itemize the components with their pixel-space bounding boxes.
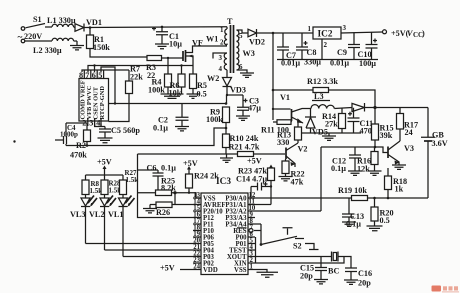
capacitor C2 0.1u <box>176 104 189 127</box>
svg-text:7: 7 <box>85 71 89 80</box>
capacitor C4 1000p <box>55 123 87 146</box>
wire node to battery <box>375 107 428 109</box>
capacitor C16 20p <box>345 268 357 280</box>
+5V Vcc terminal <box>383 30 387 34</box>
svg-text:100µ: 100µ <box>359 59 376 68</box>
svg-text:C16: C16 <box>358 269 372 278</box>
capacitor C15 20p <box>315 257 327 280</box>
ground <box>279 177 293 181</box>
svg-text:R19 10k: R19 10k <box>338 186 367 195</box>
svg-text:22k: 22k <box>130 73 143 82</box>
wire feedback left <box>66 128 226 146</box>
wire IC1 pin7 to R4 <box>88 66 193 73</box>
resistor R3 22 (horizontal, gate) <box>147 56 162 61</box>
wire W3 pin6 to ground <box>237 70 255 77</box>
wire pin8 pin7 to S2 <box>255 224 261 245</box>
resistor R2 470k <box>86 124 88 131</box>
svg-text:1: 1 <box>250 264 254 271</box>
wire <box>45 26 52 28</box>
wire VSS pin1 ground <box>255 270 267 273</box>
wire base divider rail <box>321 146 375 148</box>
svg-text:6: 6 <box>92 71 96 80</box>
resistor R28 1.5k <box>101 180 108 195</box>
wire W3 pin5 to VD2 <box>237 30 249 33</box>
svg-text:0.1µ: 0.1µ <box>161 164 176 173</box>
resistor R20 0.5 <box>373 197 376 200</box>
diode VD4 <box>352 103 365 111</box>
capacitor C9 0.01u <box>348 32 360 59</box>
svg-text:5: 5 <box>98 71 102 80</box>
capacitor C10 100u <box>366 32 378 60</box>
svg-text:4: 4 <box>219 65 223 73</box>
svg-text:VD3: VD3 <box>230 86 246 95</box>
svg-text:R12 3.3k: R12 3.3k <box>307 77 338 86</box>
ground <box>392 165 406 169</box>
svg-text:330µ: 330µ <box>304 58 321 67</box>
ground <box>257 272 279 277</box>
svg-text:V1: V1 <box>280 93 290 102</box>
svg-text:IC2: IC2 <box>318 30 333 40</box>
diode VD2 <box>248 29 257 37</box>
svg-text:12k: 12k <box>357 165 370 174</box>
resistor R1 150k <box>89 28 91 36</box>
svg-text:3: 3 <box>219 54 223 62</box>
svg-text:C14 4.7µ: C14 4.7µ <box>236 175 267 184</box>
node <box>114 102 116 104</box>
capacitor C1 10u <box>161 26 164 29</box>
resistor R7 22k <box>126 81 133 94</box>
AC terminal lower <box>21 39 25 43</box>
svg-text:VF: VF <box>192 39 203 48</box>
svg-text:20p: 20p <box>358 279 371 288</box>
MOSFET W1 VF <box>182 51 184 61</box>
svg-text:L3: L3 <box>314 92 324 101</box>
node <box>272 89 275 92</box>
winding W3 secondary <box>237 30 240 70</box>
op-amp IC1 PWM controller box <box>79 79 109 122</box>
RES pin circle <box>249 229 253 233</box>
resistor R23 47k <box>268 168 275 181</box>
node <box>272 32 275 35</box>
node dot and speck <box>13 140 15 142</box>
resistor R25 8.2k <box>138 192 156 194</box>
ground <box>368 171 382 175</box>
svg-text:8.2k: 8.2k <box>161 184 176 193</box>
svg-text:24: 24 <box>193 264 200 271</box>
svg-text:100k: 100k <box>148 86 165 95</box>
svg-text:0.5: 0.5 <box>380 216 390 225</box>
svg-text:S1: S1 <box>33 15 42 24</box>
ground bus <box>277 59 378 61</box>
svg-text:1k: 1k <box>395 185 404 194</box>
wire node to R26 <box>174 193 176 205</box>
ground <box>348 171 362 175</box>
wire to R12 <box>273 89 313 91</box>
node <box>173 191 176 194</box>
svg-text:+5V: +5V <box>160 264 175 273</box>
svg-text:W2: W2 <box>207 74 219 83</box>
svg-text:C10: C10 <box>358 50 372 59</box>
ground <box>175 127 189 131</box>
wire R10 to base rail <box>225 148 227 155</box>
svg-text:R21 4.7k: R21 4.7k <box>229 143 260 152</box>
wire top rail <box>84 26 227 29</box>
capacitor C11 470 <box>334 108 359 134</box>
svg-text:10µ: 10µ <box>169 40 182 49</box>
ground <box>322 133 336 140</box>
svg-text:1: 1 <box>308 25 312 33</box>
IC3 right pin labels <box>225 196 247 275</box>
svg-text:220V: 220V <box>24 32 42 41</box>
svg-text:1.5k: 1.5k <box>90 187 103 195</box>
svg-text:R26: R26 <box>156 208 170 217</box>
svg-text:BC: BC <box>328 267 339 276</box>
LED VL2 <box>104 195 106 199</box>
resistor R11 100 <box>277 120 291 125</box>
svg-text:V3: V3 <box>404 144 414 153</box>
battery GB 3.6V <box>421 108 435 138</box>
diode VD3 <box>226 70 228 78</box>
wire VD3 node to R9 <box>226 95 228 104</box>
diode VD1 <box>75 24 84 32</box>
resistor R18 1k <box>387 168 389 176</box>
resistor R13 330 <box>297 121 299 128</box>
svg-text:470: 470 <box>360 127 372 136</box>
capacitor C3 47u <box>227 95 249 116</box>
wire VD2 to IC2 <box>257 32 314 34</box>
svg-text:39k: 39k <box>380 131 393 140</box>
resistor R17 24 <box>399 108 401 114</box>
svg-text:1: 1 <box>220 26 224 34</box>
svg-text:1.5k: 1.5k <box>126 176 139 184</box>
svg-text:VDD: VDD <box>203 267 218 274</box>
svg-text:47µ: 47µ <box>248 104 261 113</box>
svg-text:VD1: VD1 <box>86 18 102 27</box>
wire V3 base <box>375 147 388 153</box>
capacitor C5 560p <box>95 124 111 139</box>
S2 right bracket <box>305 244 319 250</box>
wire IC1 out to R9 <box>109 103 227 105</box>
svg-text:0.1µ: 0.1µ <box>153 124 168 133</box>
svg-text:24: 24 <box>405 128 413 137</box>
svg-text:C6: C6 <box>147 164 157 173</box>
svg-text:47k: 47k <box>291 178 304 187</box>
node <box>89 26 92 29</box>
svg-text:0.1µ: 0.1µ <box>331 164 346 173</box>
inductor L3 <box>311 105 334 109</box>
svg-text:3.6V: 3.6V <box>432 139 448 148</box>
RES overline <box>237 227 247 229</box>
transistor V3 <box>387 147 389 159</box>
svg-text:W3: W3 <box>243 49 255 58</box>
resistor R5 0.5 <box>190 74 197 89</box>
ground <box>155 44 169 49</box>
svg-text:3: 3 <box>343 24 347 32</box>
node <box>167 57 169 59</box>
switch S1 <box>26 24 46 28</box>
svg-text:3: 3 <box>89 119 93 128</box>
node <box>93 64 95 66</box>
resistor R26 <box>150 204 156 206</box>
transistor V1 <box>273 108 291 110</box>
wire XOUT to crystal <box>255 256 332 258</box>
transistor V2 <box>285 148 287 160</box>
ground <box>70 41 84 50</box>
wire base rail <box>138 153 286 155</box>
ground <box>342 222 356 226</box>
svg-text:+5V: +5V <box>97 158 112 167</box>
wire pin6-pin2 stub column <box>255 237 257 263</box>
resistor R12 3.3k <box>313 88 329 93</box>
wire IC1 pin8 <box>82 70 129 72</box>
resistor R19 10k <box>248 197 352 199</box>
IC3 microcontroller box <box>201 193 248 275</box>
wire IC2 out <box>341 32 382 33</box>
svg-text:): ) <box>422 29 425 38</box>
capacitor C8 330u <box>296 33 308 60</box>
resistor R10 24k <box>223 134 230 148</box>
svg-text:20p: 20p <box>300 272 313 281</box>
wire IC1 pin6 riser <box>94 66 96 73</box>
svg-text:+5V: +5V <box>247 157 262 166</box>
wire R9 to R10 <box>225 123 227 135</box>
svg-text:1000p: 1000p <box>60 131 78 139</box>
ground <box>143 205 157 213</box>
wire R24 node to pin13 <box>189 193 201 198</box>
svg-text:+5V: +5V <box>183 159 198 168</box>
resistor R22 47k <box>285 159 287 161</box>
ground <box>220 154 233 162</box>
LED VL3 <box>85 195 87 199</box>
wire LED cathodes to IC3 <box>86 244 194 257</box>
resistor R6 10k <box>181 66 183 75</box>
wire IC1 pin5 <box>101 67 115 104</box>
AC terminal upper <box>21 27 25 31</box>
capacitor C12 0.1u <box>349 147 361 171</box>
svg-text:W1: W1 <box>206 35 218 44</box>
wire crystal to C16 <box>338 257 351 268</box>
wire pin10 to divider <box>255 147 321 211</box>
svg-text:RTCP-GND: RTCP-GND <box>99 86 106 120</box>
common rail under L3 circuit <box>302 132 361 134</box>
svg-text:L2 330µ: L2 330µ <box>33 46 62 55</box>
svg-text:8: 8 <box>79 71 83 80</box>
IC3 left pin numbers <box>193 192 200 271</box>
IC3 left pin stubs <box>193 198 201 270</box>
wire <box>74 26 75 29</box>
svg-text:VSS: VSS <box>234 267 247 274</box>
inductor L1 330u <box>52 24 74 27</box>
svg-text:470k: 470k <box>70 151 87 160</box>
crystal BC <box>332 252 339 262</box>
svg-text:C8: C8 <box>307 48 317 57</box>
IC3 right pin stubs <box>248 198 255 270</box>
IC2 regulator <box>313 27 341 39</box>
resistor R24 2k <box>186 174 193 188</box>
svg-text:100k: 100k <box>206 115 223 124</box>
svg-text:330: 330 <box>277 138 289 147</box>
wire XIN <box>255 257 344 264</box>
svg-text:S2: S2 <box>293 242 302 251</box>
svg-text:2: 2 <box>220 39 224 47</box>
ground <box>161 94 184 98</box>
winding W2 aux <box>224 53 227 70</box>
capacitor C7 0.01u <box>277 33 289 60</box>
resistor R8 1.5k <box>82 180 89 195</box>
svg-text:T: T <box>227 17 233 26</box>
svg-text:150k: 150k <box>93 43 110 52</box>
winding W1 primary <box>224 27 227 45</box>
svg-text:~: ~ <box>18 33 23 43</box>
wire pin11 riser <box>255 204 271 206</box>
svg-text:VL3: VL3 <box>70 210 85 219</box>
svg-text:2: 2 <box>324 41 328 49</box>
wire module left riser <box>138 154 194 218</box>
svg-text:C9: C9 <box>337 48 347 57</box>
svg-text:L1 330µ: L1 330µ <box>47 16 76 25</box>
resistor R9 100k <box>223 107 230 123</box>
svg-text:27k: 27k <box>325 120 338 129</box>
switch S2 <box>260 243 263 246</box>
svg-text:VL1: VL1 <box>108 210 123 219</box>
inductor L2 330u <box>25 38 77 41</box>
wire W2 pin3 stub <box>213 53 227 59</box>
ground <box>236 116 250 120</box>
svg-text:C5 560p: C5 560p <box>111 126 140 135</box>
resistor R14 27k <box>341 109 343 114</box>
node <box>180 64 182 66</box>
svg-text:VD2: VD2 <box>249 38 265 47</box>
resistor R4 100k <box>167 58 169 74</box>
capacitor C13 0.1u <box>342 198 354 222</box>
svg-text:IC3: IC3 <box>216 177 231 187</box>
wire IC2 gnd <box>321 39 323 60</box>
diode VD5 <box>305 109 316 118</box>
resistor R27 1.5k <box>120 180 127 195</box>
resistor R16 12k <box>374 147 376 152</box>
svg-text:VD5: VD5 <box>312 128 328 137</box>
svg-text:VL2: VL2 <box>89 210 104 219</box>
resistor R21 4.7k <box>238 152 254 157</box>
ground <box>187 94 200 98</box>
wire rectified rail down <box>272 33 274 120</box>
watermark red logo <box>432 286 460 293</box>
IC3 left pin labels <box>203 196 226 275</box>
capacitor C6 0.1u <box>138 170 164 190</box>
ground <box>367 226 383 231</box>
wire R12 to node <box>329 90 376 108</box>
wire LED bus <box>86 175 124 180</box>
ground <box>344 280 358 284</box>
transformer T core <box>231 25 234 73</box>
ground <box>314 280 328 284</box>
ground <box>98 138 113 143</box>
resistor R15 39k <box>374 108 376 125</box>
svg-text:V2: V2 <box>298 145 308 154</box>
IC3 right pin numbers <box>249 192 256 271</box>
LED VL1 <box>122 195 124 199</box>
